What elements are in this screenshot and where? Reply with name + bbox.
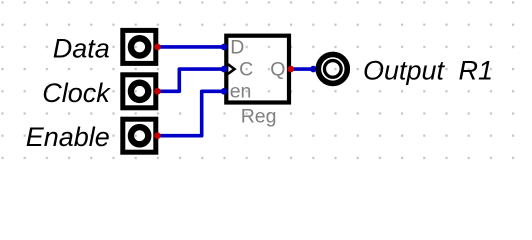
node: D input connection (blue dot) — [221, 44, 228, 51]
node: Clock pin connection (red dot) — [154, 88, 161, 95]
svg-text:en: en — [230, 81, 252, 103]
svg-text:Reg: Reg — [241, 106, 277, 128]
svg-text:C: C — [239, 59, 253, 81]
wire W2: Clock pin to C input — [158, 69, 225, 91]
node: Q output connection (red dot) — [288, 66, 295, 73]
input pin Enable — [123, 119, 156, 152]
wire W1: Data pin to D input — [158, 45, 225, 49]
register clock chevron — [228, 64, 235, 74]
node: C input connection (blue dot) — [221, 66, 228, 73]
svg-text:Q: Q — [270, 59, 285, 81]
svg-text:Data: Data — [53, 34, 110, 64]
input pin Data — [123, 30, 156, 63]
node: en input connection (blue dot) — [221, 88, 228, 95]
wire W3: Enable pin to en input — [158, 91, 225, 135]
svg-text:R1: R1 — [459, 56, 494, 86]
svg-text:Enable: Enable — [26, 122, 110, 152]
node: Data pin connection (red dot) — [154, 44, 161, 51]
node: Enable pin connection (red dot) — [154, 132, 161, 139]
output pin R1 — [318, 54, 347, 83]
wire W4: Q output to Output R1 pin — [291, 66, 317, 73]
svg-text:Output: Output — [363, 56, 446, 86]
svg-text:Clock: Clock — [42, 78, 111, 108]
svg-text:D: D — [230, 37, 244, 59]
register U1 body — [226, 36, 289, 103]
input pin Clock — [123, 75, 156, 108]
